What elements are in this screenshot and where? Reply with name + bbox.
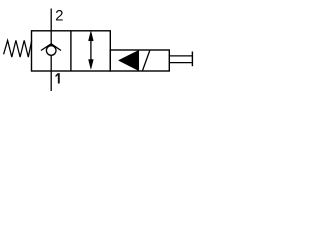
flow arrow head bottom <box>89 60 94 70</box>
spring return (left) <box>4 40 32 57</box>
check valve seat <box>41 44 61 51</box>
solenoid slash <box>142 50 150 71</box>
check valve ball (circle) <box>46 46 56 56</box>
solenoid box <box>110 50 169 71</box>
port label 1 <box>56 73 60 83</box>
plug connector upper line <box>169 55 192 57</box>
flow arrow shaft (right position) <box>90 34 92 66</box>
port label 2 <box>56 10 63 20</box>
solenoid coil triangle <box>119 50 139 70</box>
valve position divider <box>70 31 72 71</box>
plug connector end bar <box>191 52 193 67</box>
plug connector lower line <box>169 62 192 64</box>
flow arrow head top <box>89 31 94 41</box>
valve body outer box (two positions) <box>32 31 111 71</box>
wire port 2 to port 1 vertical line <box>50 9 52 92</box>
